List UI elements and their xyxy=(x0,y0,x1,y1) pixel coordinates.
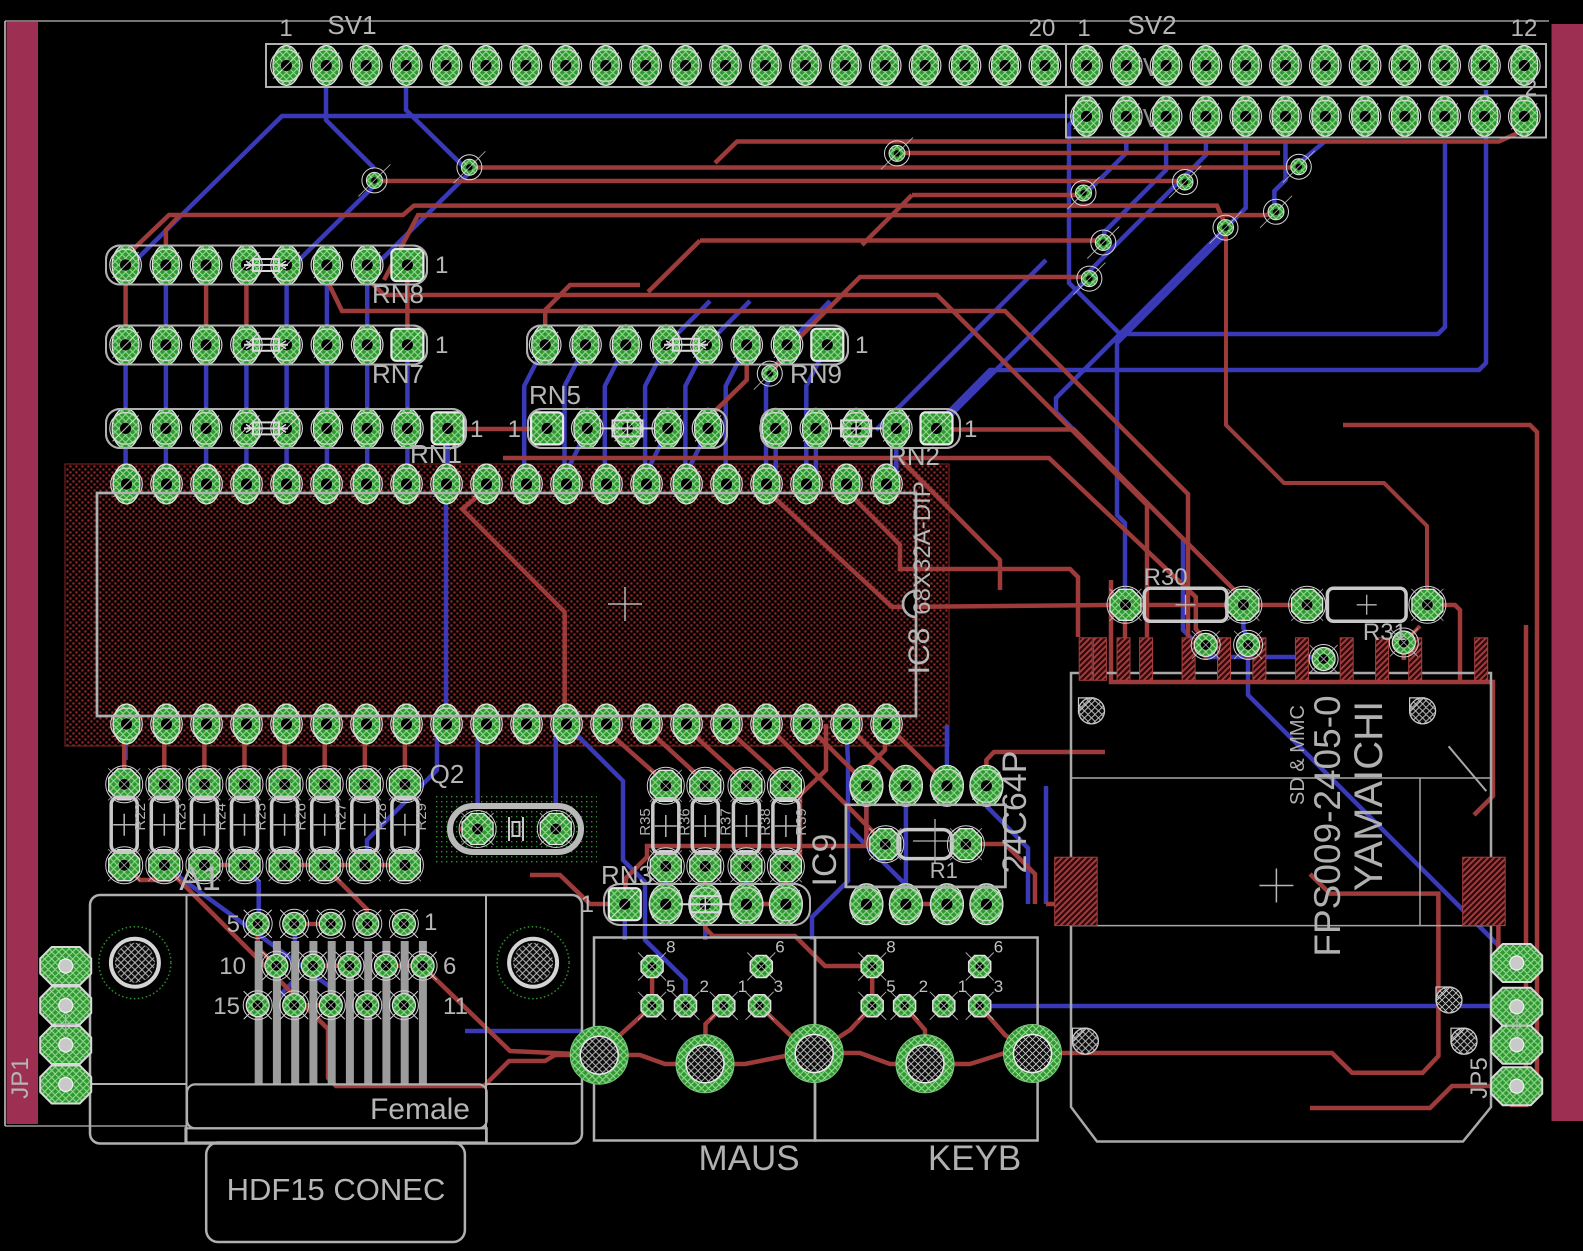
svg-text:JP5: JP5 xyxy=(1466,1057,1493,1098)
svg-text:R27: R27 xyxy=(333,803,350,831)
svg-text:R31: R31 xyxy=(1363,619,1407,646)
svg-text:MAUS: MAUS xyxy=(698,1139,799,1178)
svg-text:1: 1 xyxy=(958,977,967,996)
svg-text:11: 11 xyxy=(443,993,468,1020)
svg-text:R36: R36 xyxy=(676,808,693,836)
svg-text:1: 1 xyxy=(581,891,594,918)
svg-text:RN3: RN3 xyxy=(601,860,653,890)
svg-text:1: 1 xyxy=(470,416,483,443)
svg-text:R25: R25 xyxy=(253,803,270,831)
svg-text:R39: R39 xyxy=(793,808,810,836)
svg-text:SD & MMC: SD & MMC xyxy=(1287,705,1309,805)
svg-text:8: 8 xyxy=(666,938,675,957)
svg-text:R26: R26 xyxy=(293,803,310,831)
svg-text:Female: Female xyxy=(370,1093,470,1126)
svg-text:RN8: RN8 xyxy=(372,279,424,309)
svg-text:R29: R29 xyxy=(413,803,430,831)
svg-text:R35: R35 xyxy=(637,808,654,836)
svg-text:6: 6 xyxy=(994,938,1003,957)
svg-text:1: 1 xyxy=(738,977,747,996)
svg-text:R30: R30 xyxy=(1144,564,1188,591)
svg-text:1: 1 xyxy=(855,332,868,359)
svg-text:R24: R24 xyxy=(212,803,229,831)
svg-text:1: 1 xyxy=(435,252,448,279)
svg-text:R38: R38 xyxy=(757,808,774,836)
svg-text:IC9: IC9 xyxy=(806,834,844,887)
svg-text:15: 15 xyxy=(213,993,240,1020)
svg-text:5: 5 xyxy=(227,911,240,938)
svg-text:SV2: SV2 xyxy=(1127,10,1176,40)
svg-text:RN7: RN7 xyxy=(372,359,424,389)
svg-text:R23: R23 xyxy=(172,803,189,831)
svg-text:68X32A-DIP: 68X32A-DIP xyxy=(909,481,936,614)
svg-text:6: 6 xyxy=(775,938,784,957)
svg-text:R28: R28 xyxy=(373,803,390,831)
svg-text:R37: R37 xyxy=(717,808,734,836)
svg-text:1: 1 xyxy=(435,332,448,359)
svg-text:RN9: RN9 xyxy=(790,359,842,389)
svg-text:1: 1 xyxy=(279,15,292,42)
svg-text:HDF15 CONEC: HDF15 CONEC xyxy=(227,1172,446,1207)
svg-text:5: 5 xyxy=(886,977,895,996)
svg-text:Q2: Q2 xyxy=(430,759,465,789)
svg-text:6: 6 xyxy=(443,953,456,980)
svg-text:RN5: RN5 xyxy=(529,380,581,410)
svg-text:1: 1 xyxy=(424,909,437,936)
svg-text:1: 1 xyxy=(1077,15,1090,42)
svg-text:2: 2 xyxy=(919,977,928,996)
svg-text:20: 20 xyxy=(1029,15,1056,42)
svg-text:24C64P: 24C64P xyxy=(996,751,1034,874)
svg-text:A1: A1 xyxy=(179,860,221,898)
svg-text:1: 1 xyxy=(508,416,521,443)
svg-text:YAMAICHI: YAMAICHI xyxy=(1347,701,1391,891)
svg-text:5: 5 xyxy=(666,977,675,996)
svg-text:3: 3 xyxy=(774,977,783,996)
svg-text:FPS009-2405-0: FPS009-2405-0 xyxy=(1307,695,1348,956)
svg-text:8: 8 xyxy=(886,938,895,957)
svg-text:10: 10 xyxy=(219,953,246,980)
svg-text:2: 2 xyxy=(1525,75,1537,100)
svg-text:RN1: RN1 xyxy=(410,439,462,469)
svg-text:KEYB: KEYB xyxy=(928,1139,1021,1178)
svg-text:SV1: SV1 xyxy=(327,10,376,40)
svg-text:12: 12 xyxy=(1511,15,1538,42)
svg-text:1: 1 xyxy=(964,416,977,443)
svg-text:2: 2 xyxy=(700,977,709,996)
svg-text:R1: R1 xyxy=(930,858,958,883)
svg-text:3: 3 xyxy=(994,977,1003,996)
svg-text:R22: R22 xyxy=(132,803,149,831)
svg-text:IC8: IC8 xyxy=(903,628,936,675)
svg-text:JP1: JP1 xyxy=(7,1057,34,1098)
svg-text:RN2: RN2 xyxy=(888,441,940,471)
